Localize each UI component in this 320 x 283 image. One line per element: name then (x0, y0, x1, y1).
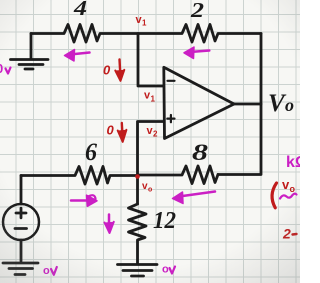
svg-text:0: 0 (0, 61, 3, 76)
svg-text:2: 2 (282, 226, 291, 242)
svg-text:kΩ: kΩ (286, 154, 300, 171)
svg-text:0: 0 (103, 63, 111, 78)
svg-text:1: 1 (151, 95, 156, 104)
svg-text:o: o (148, 187, 152, 194)
svg-text:2: 2 (190, 0, 205, 22)
svg-text:o: o (285, 95, 294, 115)
svg-text:o: o (43, 265, 50, 277)
svg-text:6: 6 (85, 139, 97, 166)
svg-text:8: 8 (192, 140, 209, 165)
svg-text:0: 0 (107, 123, 115, 138)
svg-text:o: o (290, 184, 296, 194)
svg-text:4: 4 (73, 0, 87, 20)
svg-text:1: 1 (142, 19, 147, 28)
svg-text:2: 2 (153, 130, 158, 139)
svg-text:12: 12 (153, 208, 176, 234)
svg-text:o: o (162, 264, 169, 276)
